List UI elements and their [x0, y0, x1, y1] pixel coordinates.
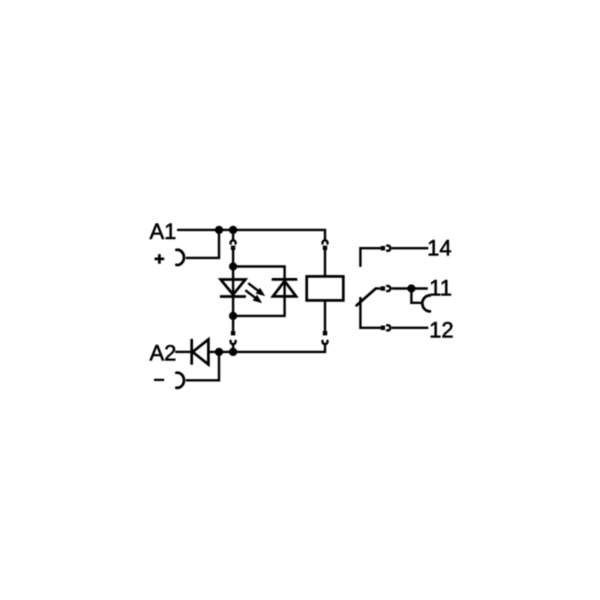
- junction node LED top: [229, 262, 237, 270]
- contact lever (changeover): [357, 289, 376, 306]
- wire A1 rail to coil connector: [177, 230, 325, 240]
- wire connector pin to node: [232, 250, 234, 267]
- wire A2 to - clamp: [186, 352, 219, 380]
- junction node A1/LED branch: [229, 226, 237, 234]
- LED emission arrow 2: [245, 290, 262, 303]
- relay coil K1: [307, 276, 344, 300]
- wire to terminal 14: [392, 247, 429, 249]
- wire NO fixed contact 14: [360, 248, 380, 267]
- plug-in connector (socket + pin) LED branch top: [231, 240, 236, 250]
- wire parallel diode loop: [233, 267, 285, 316]
- wire LED branch vertical: [232, 267, 234, 331]
- svg-text:11: 11: [429, 275, 452, 300]
- wire A2 rail: [209, 344, 326, 352]
- wire lever to contact 11: [376, 287, 381, 289]
- protection diode D3: [192, 339, 209, 365]
- wire NC common 12: [360, 297, 380, 328]
- minus sign: [154, 379, 164, 381]
- junction node LED bottom: [229, 312, 237, 320]
- LED emission arrow 1: [248, 283, 265, 296]
- junction node A1/+: [215, 226, 223, 234]
- clamp terminal +: [176, 250, 184, 265]
- clamp terminal -: [176, 373, 184, 388]
- clamp terminal 11: [422, 295, 430, 311]
- wire A2 to diode: [175, 351, 190, 353]
- plug-in connector (socket + pin) coil top: [322, 240, 327, 250]
- plug-in connector (pin + socket) coil bottom: [322, 331, 327, 344]
- wire coil bottom to connector: [324, 300, 326, 331]
- LED D1 (indicator): [220, 280, 246, 297]
- plus sign: [155, 254, 165, 264]
- plug-in contact 14 (pin + socket): [381, 246, 391, 251]
- plug-in connector (pin + socket) LED branch bottom: [230, 331, 235, 344]
- junction node A2/-: [215, 348, 223, 356]
- plug-in contact 12 (pin + socket): [381, 325, 391, 330]
- junction node 11: [407, 284, 415, 292]
- svg-text:12: 12: [429, 317, 453, 342]
- wire to terminal 12: [392, 327, 429, 329]
- svg-text:A2: A2: [150, 340, 177, 365]
- wire A1 to + clamp: [186, 230, 219, 258]
- svg-text:14: 14: [427, 235, 451, 260]
- wire to terminal 11: [392, 287, 428, 289]
- freewheeling diode D2: [272, 279, 298, 296]
- wire connector to coil top: [324, 250, 326, 277]
- wire stub into connector: [232, 230, 234, 240]
- plug-in contact 11 (pin + socket): [381, 286, 391, 291]
- wire socket to A2 rail: [232, 344, 234, 352]
- svg-text:A1: A1: [150, 219, 177, 244]
- wire 11 to clamp: [411, 289, 421, 303]
- junction node A2/LED branch: [229, 348, 237, 356]
